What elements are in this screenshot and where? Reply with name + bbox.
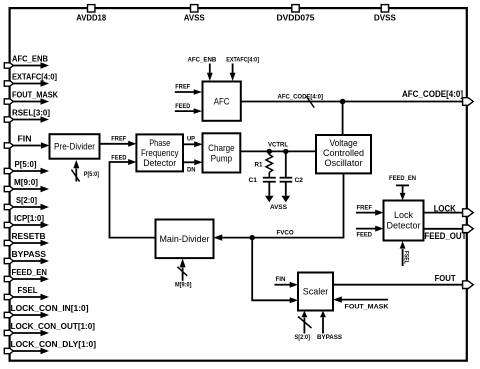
wire FEED stub into Lock Detector [356, 226, 384, 239]
svg-text:DVDD075: DVDD075 [277, 13, 316, 22]
wire FVCO branch to Scaler [252, 238, 298, 304]
input pin RESETB [4, 232, 49, 246]
wire FOUT Scaler to output [333, 284, 462, 286]
wire FREF stub into AFC [175, 84, 202, 95]
svg-text:AVSS: AVSS [270, 204, 287, 211]
output pin LOCK [463, 209, 474, 217]
svg-text:Lock: Lock [394, 210, 413, 220]
output pin FEED_OUT [463, 225, 474, 233]
wire LOCK Lock Detector to output [424, 212, 463, 214]
svg-text:S[2:0]: S[2:0] [16, 196, 37, 205]
svg-text:S[2:0]: S[2:0] [295, 334, 311, 341]
svg-text:Oscillator: Oscillator [325, 158, 363, 168]
svg-text:Pump: Pump [211, 154, 233, 164]
svg-text:EXTAFC[4:0]: EXTAFC[4:0] [12, 73, 57, 82]
input pin ICP[1:0] [4, 214, 49, 228]
wire FREF Pre-Divider to PFD [100, 136, 137, 147]
input pin LOCK_CON_OUT[1:0] [4, 322, 95, 336]
svg-text:BYPASS: BYPASS [12, 250, 47, 259]
svg-text:AVSS: AVSS [184, 13, 206, 22]
svg-text:FREF: FREF [111, 136, 126, 143]
output label FEED_OUT [424, 231, 466, 241]
wire AFC_CODE[4:0] bus AFC to output [241, 93, 462, 107]
svg-text:FEED_EN: FEED_EN [389, 175, 416, 182]
svg-text:C1: C1 [249, 177, 258, 184]
resistor R1 [255, 151, 273, 177]
svg-text:LOCK: LOCK [434, 203, 456, 214]
svg-text:C2: C2 [295, 177, 304, 184]
input pin LOCK_CON_IN[1:0] [4, 304, 89, 318]
wire FIN stub into Scaler [275, 276, 299, 288]
wire EXTAFC[4:0] down into AFC [226, 56, 259, 81]
input pin FIN [4, 135, 49, 149]
svg-text:M[9:0]: M[9:0] [175, 281, 192, 288]
svg-text:FOUT_MASK: FOUT_MASK [345, 304, 390, 311]
svg-text:Frequency: Frequency [141, 148, 179, 158]
svg-text:FSEL: FSEL [403, 251, 410, 264]
svg-text:RESETB: RESETB [12, 232, 46, 241]
svg-text:LOCK_CON_DLY[1:0]: LOCK_CON_DLY[1:0] [11, 340, 97, 349]
node VCTRL junction 2 [283, 149, 288, 154]
svg-text:Controlled: Controlled [323, 148, 364, 158]
wire FEED stub into AFC [175, 103, 202, 114]
block Lock Detector [384, 201, 424, 241]
output label LOCK [434, 203, 456, 214]
svg-text:Detector: Detector [143, 158, 176, 168]
svg-text:AFC_CODE[4:0]: AFC_CODE[4:0] [402, 89, 463, 100]
wire FSEL into Lock Detector [400, 241, 410, 266]
svg-text:AFC_CODE[4:0]: AFC_CODE[4:0] [278, 93, 324, 100]
output label FOUT [435, 274, 456, 283]
svg-text:ICP[1:0]: ICP[1:0] [14, 214, 44, 223]
power pin AVDD18 [76, 5, 107, 23]
svg-text:AVDD18: AVDD18 [76, 13, 107, 22]
block Pre-Divider [50, 134, 100, 159]
input pin FSEL [4, 286, 49, 300]
wire VCTRL Charge Pump to VCO [240, 141, 316, 151]
power pin AVSS [184, 5, 206, 23]
node AFC_CODE junction [340, 99, 346, 105]
svg-text:BYPASS: BYPASS [317, 334, 342, 341]
ground AVSS arrow under C1 [265, 196, 274, 202]
svg-text:R1: R1 [255, 161, 263, 168]
svg-text:Charge: Charge [208, 143, 235, 153]
input pin EXTAFC[4:0] [4, 73, 57, 87]
svg-text:Phase: Phase [149, 138, 170, 148]
input pin S[2:0] [4, 196, 49, 210]
power pin DVSS [374, 5, 397, 23]
output label AFC_CODE[4:0] [402, 89, 463, 100]
wire S[2:0] bus into Scaler [295, 311, 312, 341]
svg-text:FEED: FEED [111, 155, 127, 162]
ground label AVSS [270, 204, 287, 211]
wire BYPASS into Scaler [317, 311, 342, 341]
svg-text:AFC_ENB: AFC_ENB [12, 55, 48, 64]
svg-text:RSEL[3:0]: RSEL[3:0] [12, 109, 50, 118]
wire FEED_OUT Lock Detector to output [424, 228, 463, 230]
block U1 Phase Frequency Detector [136, 134, 183, 171]
block Voltage Controlled Oscillator [316, 135, 371, 173]
input pin RSEL[3:0] [4, 109, 50, 123]
input pin FOUT_MASK [4, 91, 58, 105]
wire FREF stub into Lock Detector [356, 204, 384, 215]
svg-text:P[5:0]: P[5:0] [15, 160, 37, 169]
svg-text:FEED_OUT: FEED_OUT [424, 231, 466, 241]
svg-text:EXTAFC[4:0]: EXTAFC[4:0] [226, 56, 259, 63]
svg-text:LOCK_CON_IN[1:0]: LOCK_CON_IN[1:0] [11, 304, 89, 313]
svg-text:DVSS: DVSS [374, 13, 397, 22]
svg-text:FREF: FREF [357, 204, 373, 211]
svg-text:AFC_ENB: AFC_ENB [188, 56, 217, 63]
svg-text:FOUT: FOUT [435, 274, 456, 283]
ground AVSS arrow under C2 [282, 196, 291, 202]
wire FOUT_MASK into Scaler [333, 296, 389, 310]
svg-text:FIN: FIN [18, 135, 32, 144]
svg-text:FEED: FEED [175, 103, 190, 110]
svg-text:VCTRL: VCTRL [268, 141, 288, 148]
svg-text:FEED_EN: FEED_EN [12, 268, 48, 277]
input pin FEED_EN [4, 268, 49, 282]
output pin FOUT [463, 281, 474, 289]
capacitor C2 [280, 151, 304, 195]
svg-text:M[9:0]: M[9:0] [14, 178, 38, 187]
input pin M[9:0] [4, 178, 49, 192]
capacitor C1 [249, 177, 276, 196]
svg-text:Main-Divider: Main-Divider [160, 234, 210, 244]
svg-text:FOUT_MASK: FOUT_MASK [12, 91, 58, 100]
svg-text:UP: UP [187, 136, 195, 143]
svg-text:FIN: FIN [276, 276, 286, 283]
block Scaler [298, 273, 333, 311]
svg-text:Voltage: Voltage [330, 138, 358, 148]
svg-text:FVCO: FVCO [277, 229, 294, 236]
wire FVCO VCO to Main-Divider [214, 173, 344, 240]
svg-text:FEED: FEED [357, 231, 373, 238]
block Main-Divider [156, 220, 214, 259]
wire M[9:0] bus into Main-Divider [175, 259, 192, 289]
power pin DVDD075 [277, 5, 316, 23]
wire FEED Main-Divider to PFD [110, 155, 156, 238]
wire AFC_CODE down into VCO [342, 102, 344, 136]
output pin AFC_CODE[4:0] [463, 98, 474, 106]
svg-text:FREF: FREF [175, 84, 190, 91]
input pin LOCK_CON_DLY[1:0] [4, 340, 96, 354]
wire P[5:0] bus into Pre-Divider [71, 160, 99, 182]
svg-text:DN: DN [187, 167, 196, 174]
block Charge Pump [203, 133, 241, 172]
svg-text:AFC: AFC [214, 96, 230, 106]
input pin AFC_ENB [4, 55, 49, 69]
input pin P[5:0] [4, 160, 49, 174]
wire AFC_ENB down into AFC [188, 56, 217, 81]
svg-text:LOCK_CON_OUT[1:0]: LOCK_CON_OUT[1:0] [11, 322, 96, 331]
node VCTRL junction 1 [267, 149, 272, 154]
svg-text:Scaler: Scaler [303, 286, 329, 296]
svg-text:FSEL: FSEL [18, 286, 38, 295]
svg-text:P[5:0]: P[5:0] [84, 171, 99, 178]
wire DN PFD to Charge Pump [183, 159, 203, 173]
svg-text:Detector: Detector [387, 220, 421, 230]
block AFC [203, 82, 241, 121]
node FVCO junction [250, 235, 255, 240]
input pin BYPASS [4, 250, 49, 264]
wire UP PFD to Charge Pump [183, 136, 203, 148]
wire FEED_EN into Lock Detector [389, 175, 416, 201]
svg-text:Pre-Divider: Pre-Divider [54, 142, 95, 152]
